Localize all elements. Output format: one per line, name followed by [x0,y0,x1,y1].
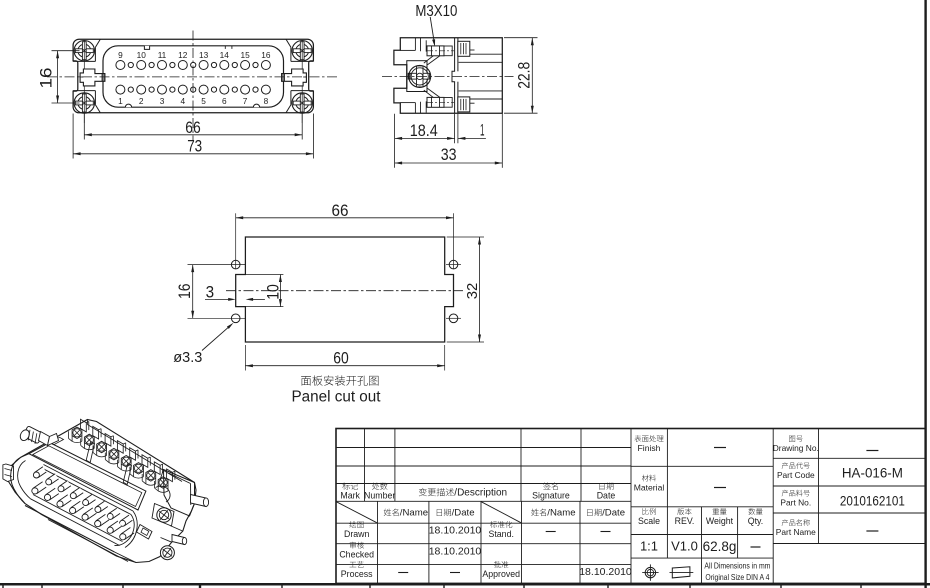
side view: insert face verticals [452,38,455,114]
front view: right latch plus-shape [282,69,307,86]
svg-text:18.4: 18.4 [410,121,438,140]
svg-text:60: 60 [333,349,349,368]
side view: latch housing [407,61,427,92]
side view: flange verticals [414,38,416,51]
isometric view: right end bracket [164,470,195,517]
dimension 18.4 side view [394,114,396,168]
svg-text:Number: Number [364,491,395,501]
svg-text:Approved: Approved [482,569,520,579]
front view: insert bottom notches [125,104,131,107]
svg-text:/Name: /Name [400,508,428,519]
sheet bottom fold ticks [2,586,4,588]
isometric view: inner bottom face line [48,520,128,562]
svg-text:Panel cut out: Panel cut out [292,389,382,406]
svg-text:HA-016-M: HA-016-M [842,466,903,481]
svg-text:/Description: /Description [454,488,507,499]
svg-text:Stand.: Stand. [488,529,513,539]
isometric view: front face window [137,525,153,540]
part no label [782,490,810,497]
side view: top slotted screw head [458,41,470,56]
svg-text:Weight: Weight [706,516,734,526]
svg-text:10: 10 [137,50,147,60]
svg-text:Part Name: Part Name [776,527,816,537]
part code label [782,462,810,469]
title block diagonal slashes [337,502,378,523]
dimension 60 panel cutout [244,345,246,371]
dimension 1 side view [458,137,486,139]
isometric view: top recess band [29,443,146,511]
svg-text:Finish: Finish [638,443,661,453]
svg-text:Material: Material [634,482,665,492]
svg-text:16: 16 [175,284,194,300]
drawing no label [789,435,803,441]
front view: insert outline [103,46,284,107]
panel cutout centerline [226,290,463,292]
panel cutout outline [236,237,454,342]
finish label [635,435,664,442]
panel cutout right hole ticks [446,264,461,266]
isometric view: hood right end arc [115,515,135,546]
svg-text:73: 73 [187,136,202,155]
label diameter 3.3 with leader [202,325,231,351]
front view: insert top notch [144,46,149,50]
svg-text:1: 1 [118,96,123,106]
front view: pin circles and numbers [116,61,125,70]
isometric view: hood rim edge lines [41,468,131,515]
svg-text:14: 14 [220,50,230,60]
svg-text:62.8g: 62.8g [703,539,737,554]
svg-text:Date: Date [597,491,616,501]
dimension 16 front view [52,50,80,52]
svg-text:13: 13 [199,50,209,60]
isometric view: lower right phillips screw [160,546,174,560]
svg-text:Drawn: Drawn [344,529,370,539]
isometric view: left clip tab [3,464,14,482]
svg-text:2010162101: 2010162101 [840,493,905,509]
svg-text:1:1: 1:1 [640,539,658,554]
dimension 66 front view [83,114,85,140]
svg-text:66: 66 [185,118,201,137]
front view: vertical centerline [192,31,194,141]
material label [642,475,656,482]
front view: insert top edge break ticks [224,46,226,49]
svg-text:12: 12 [178,50,188,60]
isometric view: pins upper row [35,467,47,478]
svg-text:Process: Process [341,569,373,579]
isometric view: right end phillips screw [157,508,171,522]
title block outer frame [336,429,926,584]
dimension 10 panel cutout [236,274,284,276]
side view: guide bushing cross [410,73,430,79]
title block left header labels [342,482,358,489]
svg-text:ø3.3: ø3.3 [173,349,202,366]
svg-text:/Name: /Name [547,508,575,519]
isometric view: terminal screws row [72,427,82,438]
svg-text:REV.: REV. [675,516,695,526]
svg-text:10: 10 [263,284,282,300]
front view: screw centerline verticals [83,41,85,124]
side view: horizontal centerline [382,76,514,78]
scale rev weight qty headers [642,508,655,515]
dash placeholders lower left [546,531,556,533]
isometric view: top face compartment dividers [86,442,94,463]
svg-text:16: 16 [261,50,271,60]
svg-text:8: 8 [264,96,269,106]
svg-text:Part Code: Part Code [777,470,815,480]
dimension 66 panel cutout [235,213,237,269]
svg-text:5: 5 [201,96,206,106]
isometric view: back-left screw assembly [19,426,44,444]
svg-text:18.10.2010: 18.10.2010 [429,525,482,537]
svg-text:/Date: /Date [602,508,625,519]
svg-text:33: 33 [441,145,457,164]
svg-text:Checked: Checked [339,550,374,560]
panel cutout mounting holes [231,260,240,269]
svg-text:Signature: Signature [532,491,570,501]
svg-text:9: 9 [118,50,123,60]
sheet bottom border [0,583,930,586]
isometric view: body silhouette [6,420,196,563]
svg-text:Mark: Mark [340,491,360,501]
name date subheaders [384,509,399,516]
isometric view: cage windows along top edge [81,419,87,432]
isometric view: hood left arc [11,457,25,503]
svg-text:6: 6 [222,96,227,106]
svg-text:32: 32 [464,283,481,300]
sheet right border [924,0,926,588]
side view: bottom M3 screw body [427,97,444,107]
svg-text:3: 3 [160,96,165,106]
isometric view: lower right screw cylinder [172,535,185,545]
svg-text:16: 16 [36,68,55,89]
isometric view: pins lower row [33,482,46,494]
svg-text:All Dimensions in mm: All Dimensions in mm [704,561,770,570]
front view: corner screws with phillips cross [74,41,94,61]
side view: body horizontal lines [470,53,503,55]
dimension 33 side view [501,114,503,168]
side view: guide bushing circles [409,65,431,87]
svg-text:M3X10: M3X10 [415,3,457,20]
dimension 3 panel cutout [205,298,232,300]
isometric view: right guide cylinder [191,495,207,507]
side view: bottom slotted screw head [458,97,470,112]
svg-text:Original Size DIN A 4: Original Size DIN A 4 [705,573,769,582]
title block left section grid [336,447,631,449]
svg-text:Scale: Scale [638,516,660,526]
dimension 32 panel cutout [447,236,484,238]
front view: corner screw pockets [73,60,95,62]
title block right section grid [773,457,925,459]
cone projection symbol [672,567,690,578]
dimension 73 front view [72,114,74,159]
title block middle section grid [631,465,773,467]
isometric view: top face back edge double line [21,454,29,458]
front view: connector body outline [73,39,313,113]
side view: top M3 screw body [427,46,444,56]
isometric view: lower body texture lines [115,552,137,563]
side view: outer profile [394,38,502,114]
svg-text:15: 15 [240,50,250,60]
right section values [866,450,878,452]
svg-text:22.8: 22.8 [514,62,533,89]
svg-text:3: 3 [206,282,215,301]
svg-text:18.10.2010: 18.10.2010 [429,545,482,557]
svg-text:2: 2 [139,96,144,106]
dimension 16 panel cutout [188,264,246,266]
svg-text:7: 7 [243,96,248,106]
part name label [782,519,810,526]
svg-text:Part No.: Part No. [780,497,811,507]
panel cutout captions [301,375,378,385]
svg-text:Drawing No.: Drawing No. [773,443,819,453]
svg-text:11: 11 [158,50,167,60]
description header [419,488,454,496]
svg-text:66: 66 [332,201,349,220]
dimension 22.8 side view [504,37,538,39]
svg-text:V1.0: V1.0 [671,539,698,554]
front view: horizontal centerline [47,76,339,78]
front view: left latch plus-shape [80,69,105,86]
svg-text:18.10.2010: 18.10.2010 [579,566,632,578]
svg-text:4: 4 [180,96,185,106]
side view: diagonal braces [424,49,442,63]
svg-text:1: 1 [480,120,485,139]
svg-text:Qty.: Qty. [748,516,763,526]
row labels drawn checked process [349,521,363,528]
first angle projection symbol [645,567,655,577]
svg-text:/Date: /Date [452,508,475,519]
finish material dashes [714,447,726,449]
